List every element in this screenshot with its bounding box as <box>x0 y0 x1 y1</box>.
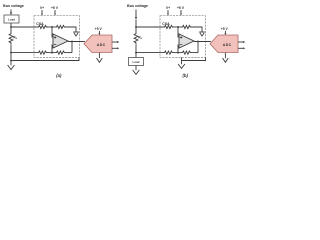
svg-text:+5 V: +5 V <box>51 6 59 10</box>
op-amp A1 (a) <box>53 34 68 48</box>
ground main (a) <box>8 65 15 70</box>
wire V+ supply stub (b) <box>167 10 169 16</box>
wire bottom node to amp input (a) <box>51 45 53 53</box>
resistor R1 input top (b) <box>164 25 174 28</box>
wire feedback vertical (b) <box>197 42 199 53</box>
svg-text:V+: V+ <box>40 6 44 10</box>
wire ADC output arrow 2 (a) <box>112 47 119 49</box>
wire R1 to R2 (b) <box>174 26 182 28</box>
resistor RS shunt (a) <box>9 33 13 45</box>
resistor R2 gain top (b) <box>182 25 192 28</box>
wire ADC output arrow 1 (a) <box>112 41 119 43</box>
wire ADC supply stub (b) <box>224 31 226 36</box>
wire top node to amp input (a) <box>51 27 53 38</box>
CSA box (b) <box>160 16 206 58</box>
resistor R4 feedback (b) <box>182 51 192 54</box>
wire shunt to load (b) <box>135 45 137 58</box>
node noninverting bottom junction (a) <box>51 52 53 54</box>
wire ADC ground stub (b) <box>224 53 226 59</box>
svg-text:+5 V: +5 V <box>221 27 229 31</box>
load LOAD (b) <box>129 58 144 66</box>
label minus input (b) <box>180 44 182 46</box>
wire top node to amp input (b) <box>177 27 179 38</box>
wire ADC supply stub (a) <box>98 31 100 36</box>
wire ADC ground stub (a) <box>98 53 100 59</box>
svg-text:+5 V: +5 V <box>95 27 103 31</box>
svg-text:RS: RS <box>13 35 17 40</box>
ground ADC (a) <box>97 58 103 62</box>
node output feedback junction (b) <box>197 41 199 43</box>
wire CSA top input (a) <box>11 26 38 28</box>
wire feedback vertical (a) <box>71 42 73 53</box>
wire R3 to R4 (b) <box>174 52 182 54</box>
wire +5V supply stub (a) <box>54 10 56 16</box>
svg-text:Bus voltage: Bus voltage <box>3 4 24 8</box>
ADC U2 (a) <box>84 35 112 53</box>
svg-text:V+: V+ <box>166 6 170 10</box>
svg-text:Load: Load <box>133 60 140 64</box>
wire R4 to feedback node (a) <box>66 52 72 54</box>
wire shunt to ground node (a) <box>10 45 12 65</box>
wire bus arrow (b) <box>135 10 137 20</box>
resistor R3 input bottom (a) <box>38 51 48 54</box>
wire CSA top input (b) <box>136 26 164 28</box>
ADC U2 (b) <box>210 35 238 53</box>
svg-text:Bus voltage: Bus voltage <box>127 4 148 8</box>
svg-text:CSA: CSA <box>162 22 170 26</box>
wire CSA ground drop (b) <box>181 57 183 64</box>
svg-text:(b): (b) <box>183 73 189 78</box>
svg-text:CSA: CSA <box>36 22 44 26</box>
CSA box (a) <box>34 16 80 58</box>
wire R2 to internal ground (b) <box>192 27 202 32</box>
node shunt top junction (a) <box>10 26 12 28</box>
op-amp A1 (b) <box>179 34 194 48</box>
load LOAD (a) <box>4 15 19 23</box>
svg-text:(a): (a) <box>56 73 62 78</box>
node noninverting bottom junction (b) <box>177 52 179 54</box>
wire bus node vertical (b) <box>135 20 137 34</box>
wire R2 to internal ground (a) <box>66 27 76 32</box>
wire load to ground (b) <box>135 66 137 71</box>
svg-text:ADC: ADC <box>97 43 106 47</box>
node CSA bottom input junction (a) <box>10 52 12 54</box>
svg-text:ADC: ADC <box>223 43 232 47</box>
wire amp output (b) <box>194 41 211 43</box>
wire ADC output arrow 2 (b) <box>238 47 245 49</box>
wire ground rail (a) <box>11 57 79 60</box>
wire +5V supply stub (b) <box>180 10 182 16</box>
node CSA bottom input junction (b) <box>135 52 137 54</box>
wire bus arrow (a) <box>10 10 12 16</box>
wire ADC output arrow 1 (b) <box>238 41 245 43</box>
ground ADC (b) <box>223 58 229 62</box>
svg-text:RS: RS <box>138 35 142 40</box>
label plus input (a) <box>54 36 56 38</box>
label minus input (a) <box>54 44 56 46</box>
wire load to node (a) <box>10 23 12 27</box>
wire R1 to R2 (a) <box>48 26 56 28</box>
node shunt top junction (b) <box>135 26 137 28</box>
wire V+ supply stub (a) <box>41 10 43 16</box>
node ground rail junction (a) <box>10 60 12 62</box>
wire R4 to feedback node (b) <box>192 52 198 54</box>
resistor R4 feedback (a) <box>56 51 66 54</box>
resistor RS shunt (b) <box>134 33 138 45</box>
wire amp output (a) <box>68 41 85 43</box>
resistor R3 input bottom (b) <box>164 51 174 54</box>
ground internal CSA (a) <box>73 32 79 36</box>
ground load (b) <box>133 70 140 74</box>
node inverting top junction (b) <box>177 26 179 28</box>
ground internal CSA (b) <box>199 32 205 36</box>
wire node to shunt (a) <box>10 27 12 33</box>
svg-text:Load: Load <box>8 17 15 21</box>
node output feedback junction (a) <box>71 41 73 43</box>
node inverting top junction (a) <box>51 26 53 28</box>
wire CSA bottom input (b) <box>136 52 164 54</box>
wire ground rail (b) <box>182 57 206 60</box>
svg-text:+5 V: +5 V <box>177 6 185 10</box>
wire bottom node to amp input (b) <box>177 45 179 53</box>
label plus input (b) <box>180 36 182 38</box>
resistor R2 gain top (a) <box>56 25 66 28</box>
wire R3 to R4 (a) <box>48 52 56 54</box>
ground CSA rail (b) <box>178 64 185 68</box>
resistor R1 input top (a) <box>38 25 48 28</box>
wire CSA bottom input (a) <box>11 52 38 54</box>
